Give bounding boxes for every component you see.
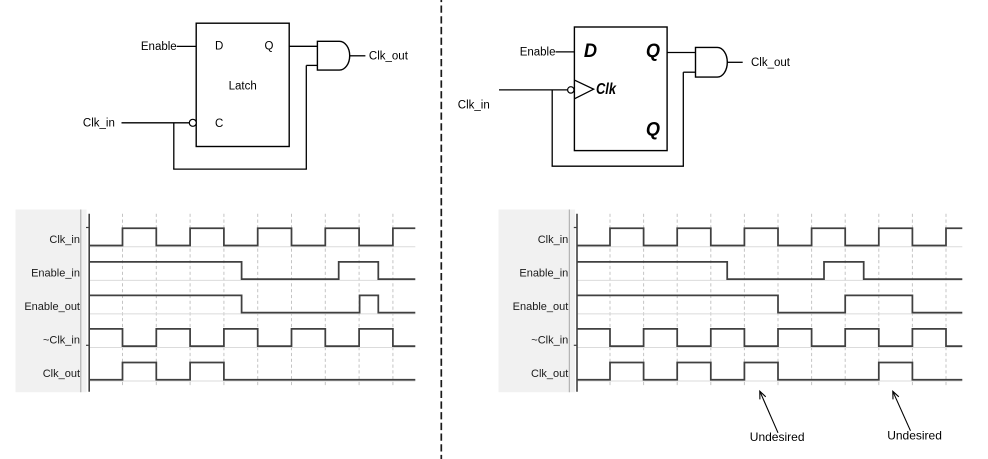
wire feedback: up to U2 lower input [305, 65, 307, 169]
wire U2 output [350, 55, 366, 57]
left timing diagram: name panel background [16, 210, 87, 393]
svg-text:Clk_out: Clk_out [43, 368, 80, 380]
wire feedback right: bottom horizontal [552, 165, 684, 167]
annotation arrow 1 (undesired pulse) [760, 391, 778, 433]
svg-text:Clk_in: Clk_in [83, 118, 115, 130]
right timing diagram: time axis [576, 214, 578, 392]
wire Clk_in to U3 clock bubble [499, 89, 568, 91]
svg-text:~Clk_in: ~Clk_in [43, 335, 80, 347]
svg-text:Enable_out: Enable_out [24, 301, 80, 313]
svg-text:Enable: Enable [141, 41, 177, 53]
svg-text:Clk_in: Clk_in [538, 234, 569, 246]
svg-text:Q: Q [646, 41, 660, 62]
svg-text:Latch: Latch [229, 81, 257, 93]
left timing diagram: panel divider line [80, 210, 82, 393]
svg-text:Q: Q [646, 119, 660, 140]
svg-text:Enable: Enable [520, 47, 556, 59]
flip-flop U3 [574, 27, 667, 151]
flip-flop U3 clock wedge [574, 80, 593, 99]
annotation arrow 2 (undesired pulse) [893, 391, 911, 431]
right timing diagram: name panel background [499, 210, 576, 393]
svg-text:Undesired: Undesired [887, 429, 942, 443]
wire U2 lower input [306, 64, 317, 66]
left timing diagram: axis ticks [86, 228, 89, 346]
wire feedback right: junction down [551, 90, 553, 166]
wire Enable to U1.D [177, 45, 197, 47]
svg-text:Clk_in: Clk_in [49, 234, 80, 246]
left waveform Enable_in [89, 262, 415, 279]
right waveform Clk_out [577, 363, 962, 380]
left waveform Clk_out [89, 363, 415, 380]
svg-text:Q: Q [265, 40, 274, 52]
left waveform Clk_in [89, 228, 415, 245]
left timing diagram: vertical grid lines [123, 214, 393, 387]
svg-text:Enable_out: Enable_out [513, 301, 569, 313]
wire feedback: junction down [173, 123, 175, 169]
svg-text:Clk_out: Clk_out [751, 57, 791, 69]
right timing diagram: panel divider line [568, 210, 570, 393]
right waveform Clk_in [577, 228, 962, 245]
svg-text:Clk: Clk [596, 81, 617, 98]
right waveform Enable_out [577, 295, 962, 312]
svg-text:D: D [215, 40, 223, 52]
wire U4 output [727, 61, 742, 63]
latch U1 [196, 23, 289, 146]
wire Clk_in to bubble [122, 122, 190, 124]
and gate U2 [317, 41, 349, 70]
right waveform ~Clk_in [577, 329, 962, 346]
wire U4 lower input [683, 71, 695, 73]
svg-text:D: D [584, 41, 597, 62]
wire feedback right: up to U4 lower input [682, 72, 684, 166]
left waveform Enable_out [89, 295, 415, 312]
svg-text:Clk_in: Clk_in [458, 100, 490, 112]
right timing diagram: vertical grid lines [610, 214, 946, 387]
svg-text:Enable_in: Enable_in [31, 267, 80, 279]
inversion bubble at U3 clock [568, 87, 574, 93]
svg-text:C: C [215, 118, 223, 130]
inversion bubble at U1.C [189, 119, 196, 126]
svg-text:Undesired: Undesired [750, 430, 805, 444]
and gate U4 [696, 47, 728, 77]
left waveform ~Clk_in [89, 329, 415, 346]
wire Enable to U3.D [556, 51, 575, 53]
left timing diagram: row separator lines [89, 247, 415, 381]
wire feedback: bottom horizontal [173, 168, 307, 170]
left timing diagram: time axis [88, 214, 90, 392]
wire U1.Q to U2 upper input [289, 45, 317, 47]
wire U3.Q to U4 upper input [667, 52, 695, 54]
right timing diagram: axis ticks [574, 228, 577, 346]
dashed separator line between halves [440, 0, 442, 459]
right timing diagram: row separator lines [577, 247, 962, 381]
right waveform Enable_in [577, 262, 962, 279]
svg-text:Enable_in: Enable_in [519, 267, 568, 279]
svg-text:Clk_out: Clk_out [369, 51, 409, 63]
svg-text:~Clk_in: ~Clk_in [531, 335, 568, 347]
svg-text:Clk_out: Clk_out [531, 368, 568, 380]
